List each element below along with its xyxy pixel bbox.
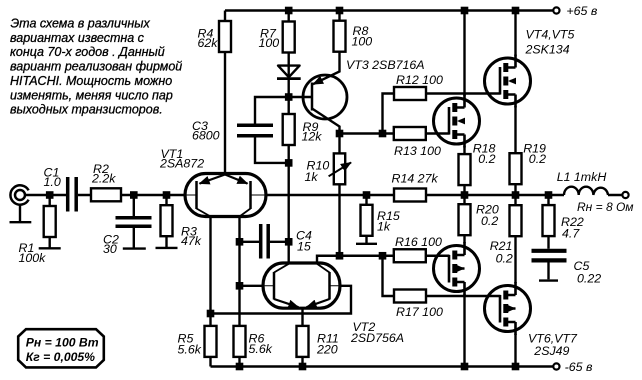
svg-text:0.2: 0.2 <box>481 214 498 228</box>
svg-text:100k: 100k <box>19 251 47 265</box>
svg-text:R16 100: R16 100 <box>395 235 442 249</box>
svg-text:2SA872: 2SA872 <box>159 156 204 170</box>
svg-text:конца 70-х годов . Данный: конца 70-х годов . Данный <box>10 45 165 59</box>
svg-text:100: 100 <box>352 34 373 48</box>
svg-text:R13 100: R13 100 <box>394 144 441 158</box>
svg-text:изменять, меняя число пар: изменять, меняя число пар <box>10 88 173 102</box>
svg-text:выходных транзисторов.: выходных транзисторов. <box>10 103 163 117</box>
svg-text:2SK134: 2SK134 <box>525 42 570 56</box>
svg-text:0.2: 0.2 <box>478 152 495 166</box>
svg-text:220: 220 <box>316 342 338 356</box>
svg-text:VT4,VT5: VT4,VT5 <box>526 27 575 41</box>
svg-text:вариантах известна с: вариантах известна с <box>10 31 145 45</box>
svg-text:12k: 12k <box>302 129 323 143</box>
svg-text:1k: 1k <box>377 219 391 233</box>
svg-text:1k: 1k <box>305 170 319 184</box>
svg-text:2SD756A: 2SD756A <box>350 331 404 345</box>
svg-text:вариант реализован фирмой: вариант реализован фирмой <box>10 60 182 74</box>
svg-text:2.2k: 2.2k <box>91 171 116 185</box>
svg-text:100: 100 <box>259 36 280 50</box>
svg-text:Кг = 0,005%: Кг = 0,005% <box>26 350 95 364</box>
svg-text:R12 100: R12 100 <box>396 73 443 87</box>
svg-text:6800: 6800 <box>192 128 220 142</box>
svg-text:Рн = 100 Вт: Рн = 100 Вт <box>26 335 99 349</box>
svg-text:5.6k: 5.6k <box>178 342 202 356</box>
svg-text:+65 в: +65 в <box>566 4 597 18</box>
svg-text:Rн = 8 Ом: Rн = 8 Ом <box>577 200 634 214</box>
svg-text:30: 30 <box>103 242 117 256</box>
svg-text:0.22: 0.22 <box>577 272 601 286</box>
svg-text:47k: 47k <box>181 234 202 248</box>
svg-text:R14 27k: R14 27k <box>392 171 439 185</box>
svg-text:2SJ49: 2SJ49 <box>533 344 569 358</box>
svg-text:0.2: 0.2 <box>529 152 546 166</box>
svg-text:Эта схема в различных: Эта схема в различных <box>11 17 151 31</box>
svg-text:15: 15 <box>297 240 311 254</box>
svg-text:1.0: 1.0 <box>44 175 61 189</box>
svg-text:62k: 62k <box>198 36 219 50</box>
svg-text:VT3 2SB716A: VT3 2SB716A <box>346 58 425 72</box>
svg-text:5.6k: 5.6k <box>249 342 273 356</box>
svg-text:4.7: 4.7 <box>562 226 580 240</box>
svg-text:HITACHI. Мощность можно: HITACHI. Мощность можно <box>10 74 172 88</box>
svg-text:L1 1mkH: L1 1mkH <box>557 170 607 184</box>
svg-text:-65 в: -65 в <box>565 360 593 374</box>
svg-text:0.2: 0.2 <box>496 251 513 265</box>
svg-text:R17 100: R17 100 <box>396 305 443 319</box>
